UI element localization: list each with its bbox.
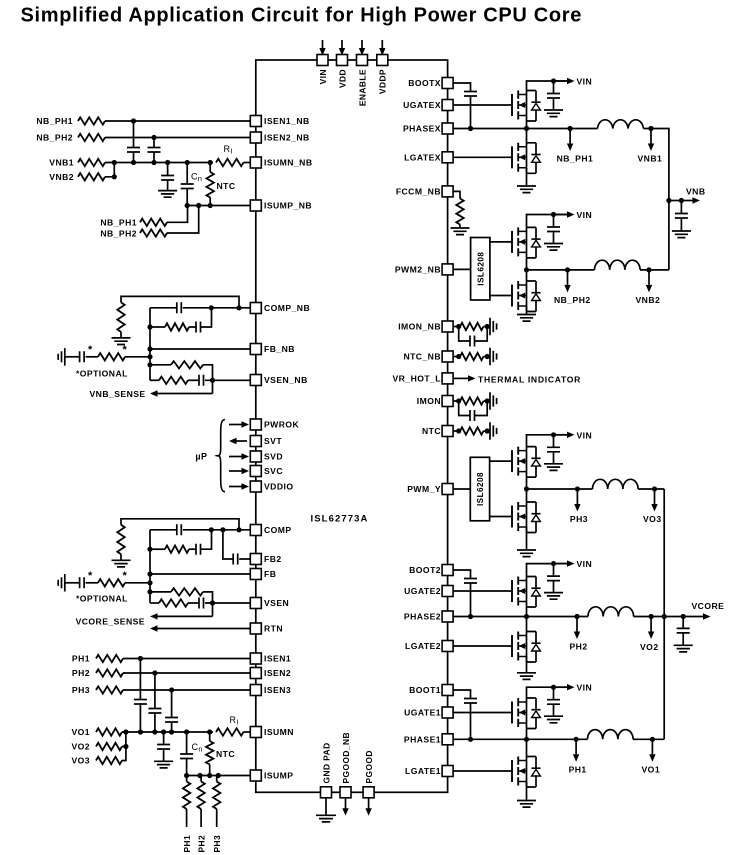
arrow VO3 (651, 489, 657, 512)
svg-text:VNB2: VNB2 (636, 295, 661, 305)
wire VNB2 to bus (105, 163, 114, 177)
svg-text:*: * (123, 570, 128, 582)
pin LGATEX (442, 152, 453, 163)
transistor upper FET phase 2 (512, 577, 541, 608)
arrow PWROK in (229, 421, 249, 427)
resistor VNB1 (78, 159, 105, 166)
pin ISUMN (250, 727, 261, 738)
wire bootstrap (448, 83, 471, 92)
inductor phase X (598, 120, 644, 129)
svg-text:*: * (123, 344, 128, 356)
driver U2 ISL6208 (471, 238, 490, 301)
svg-text:ISEN1: ISEN1 (264, 654, 291, 664)
arrow sense out (150, 613, 213, 619)
wire (188, 602, 199, 604)
wire cap to ISUMN_NB (153, 152, 155, 163)
wire (139, 659, 141, 700)
node NB_PH2 (565, 267, 570, 272)
junction ISUMP bus (184, 773, 189, 778)
pin VSEN (250, 598, 261, 609)
junction (468, 126, 473, 131)
wire (526, 739, 528, 756)
wire NTC to ISUMP_NB (209, 198, 211, 206)
svg-text:FB_NB: FB_NB (264, 344, 295, 354)
wire into pin ENABLE (361, 40, 363, 48)
wire (459, 326, 460, 328)
ground (490, 392, 497, 410)
wire (680, 201, 682, 214)
svg-text:Simplified Application Circuit: Simplified Application Circuit for High … (21, 5, 583, 27)
resistor NB_PH2 lower (140, 229, 167, 236)
junction ISUMN_NB bus (185, 160, 190, 165)
ground (optional) (58, 348, 65, 366)
wire (475, 327, 488, 342)
arrow VIN (554, 78, 575, 84)
svg-text:*: * (88, 344, 93, 356)
svg-text:Cn: Cn (192, 742, 203, 754)
pin FB2 (250, 554, 261, 565)
svg-text:VIN: VIN (577, 683, 593, 693)
wire into pin VDDP (381, 40, 383, 48)
wire UGATE1 (448, 712, 512, 714)
arrow VNB out (681, 197, 700, 203)
wire into pin VIN (322, 40, 324, 48)
wire (669, 200, 682, 202)
ground (674, 645, 693, 652)
pin ISEN3 (250, 685, 261, 696)
wire (553, 564, 555, 577)
ground (517, 673, 536, 680)
junction phase Y (524, 486, 529, 491)
svg-text:NTC: NTC (422, 426, 441, 436)
junction (185, 203, 190, 208)
svg-text:ISL6208: ISL6208 (476, 472, 485, 506)
svg-text:GND PAD: GND PAD (321, 742, 331, 783)
capacitor VCORE output (677, 628, 690, 633)
wire to VSEN pin (205, 602, 256, 604)
svg-text:VO2: VO2 (640, 642, 659, 652)
ground (517, 801, 536, 808)
node VO2 (649, 614, 654, 619)
capacitor feedback (177, 524, 182, 535)
resistor optional (98, 579, 125, 586)
svg-text:ISUMN: ISUMN (264, 727, 294, 737)
wire to FB2 pin (239, 558, 256, 560)
wire (484, 400, 491, 402)
svg-text:VIN: VIN (577, 559, 593, 569)
pin PWM_Y (442, 484, 453, 495)
pin VSEN_NB (250, 375, 261, 386)
wire (150, 602, 159, 604)
transistor lower FET phase 2 (512, 632, 541, 663)
junction (210, 600, 215, 605)
junction ISUMN_NB bus (151, 160, 156, 165)
transistor lower FET phase X (512, 143, 541, 174)
svg-text:VNB1: VNB1 (49, 158, 74, 168)
resistor compensation RC (165, 546, 189, 553)
junction ISUMN bus (184, 729, 189, 734)
resistor optional (98, 353, 125, 360)
wire bootstrap to phase (470, 703, 472, 739)
wire (553, 435, 555, 448)
svg-text:PHASEX: PHASEX (403, 124, 441, 134)
wire sense (212, 380, 214, 393)
wire (553, 581, 555, 593)
svg-text:PH3: PH3 (212, 835, 222, 853)
wire UGATE2 (448, 590, 512, 592)
wire (150, 326, 165, 328)
resistor Ri (216, 159, 244, 166)
pin ISEN2 (250, 668, 261, 679)
wire drain to VIN (527, 215, 570, 228)
capacitor ISEN1_NB filter (127, 148, 140, 153)
pin LGATE1 (442, 766, 453, 777)
svg-text:VIN: VIN (577, 430, 593, 440)
svg-text:UGATEX: UGATEX (403, 100, 441, 110)
wire (553, 98, 555, 110)
junction (196, 203, 201, 208)
junction (485, 354, 490, 359)
ground (490, 348, 497, 365)
wire phase node vertical (526, 477, 528, 502)
junction ISUMP bus (216, 773, 221, 778)
svg-text:FCCM_NB: FCCM_NB (396, 187, 441, 197)
arrow VNB2 (646, 270, 652, 293)
svg-text:VSEN_NB: VSEN_NB (264, 375, 308, 385)
wire drain to VIN (527, 687, 570, 698)
svg-text:ISEN3: ISEN3 (264, 685, 291, 695)
arrow into pin VIN (319, 48, 325, 56)
wire to ISEN (123, 672, 256, 674)
wire (200, 776, 202, 782)
wire PH3 node east (638, 488, 664, 490)
wire (65, 582, 80, 584)
wire to pin (183, 307, 256, 309)
capacitor ISEN1 filter (134, 700, 147, 705)
junction (468, 737, 473, 742)
wire (120, 332, 122, 338)
arrow NB_PH2 (564, 270, 570, 293)
capacitor feedback (177, 302, 182, 313)
svg-text:VCORE_SENSE: VCORE_SENSE (76, 617, 145, 627)
resistor PH1 return (183, 782, 190, 810)
wire to ISUMP_NB (167, 206, 199, 234)
wire FCCM_NB (448, 191, 460, 198)
node PH3 (575, 486, 580, 491)
wire (209, 732, 211, 741)
inductor phase Y (593, 479, 639, 489)
pin NTC (442, 426, 453, 437)
node VNB (666, 198, 671, 203)
junction ISUMN_NB bus (208, 160, 213, 165)
wire (186, 163, 188, 185)
junction (456, 428, 461, 433)
arrow PH1 (573, 739, 579, 762)
pin SVT (250, 436, 261, 447)
brace uP (217, 420, 226, 492)
svg-text:VNB: VNB (686, 187, 706, 197)
wire compensation top (121, 296, 239, 307)
svg-text:SVC: SVC (264, 466, 283, 476)
svg-text:VIN: VIN (577, 77, 593, 87)
arrow into pin ENABLE (359, 48, 365, 56)
arrow PGOOD_NB out (342, 808, 348, 816)
wire (150, 529, 177, 531)
transistor upper FET phase X (512, 91, 541, 122)
wire to ISEN (123, 689, 256, 691)
wire (484, 430, 491, 432)
pin ENABLE (357, 55, 368, 66)
svg-text:LGATE2: LGATE2 (405, 641, 441, 651)
svg-text:RI: RI (230, 715, 239, 727)
node ISEN2_NB filter tap (151, 135, 156, 140)
wire RC up (201, 530, 212, 549)
arrow NB_PH1 (567, 129, 573, 152)
resistor VO2 (96, 743, 122, 750)
resistor IMON (460, 397, 484, 404)
junction (485, 324, 490, 329)
wire (475, 401, 488, 416)
node PH1 (574, 737, 579, 742)
svg-text:VDD: VDD (337, 69, 347, 88)
svg-text:PWROK: PWROK (264, 420, 300, 430)
svg-text:Cn: Cn (191, 172, 202, 184)
svg-text:COMP: COMP (264, 525, 292, 535)
wire feedback bus (149, 308, 151, 381)
svg-text:VIN: VIN (577, 210, 593, 220)
wire to ISUMP_NB (167, 206, 188, 223)
pin COMP (250, 525, 261, 536)
resistor NB_PH1 lower (140, 219, 167, 226)
svg-text:COMP_NB: COMP_NB (264, 303, 310, 313)
pin PWROK (250, 419, 261, 430)
wire drain to VIN (527, 564, 570, 577)
wire to ISEN1_NB (105, 120, 256, 122)
svg-text:VDDP: VDDP (378, 69, 388, 94)
junction (209, 527, 214, 532)
svg-text:IMON_NB: IMON_NB (398, 322, 441, 332)
wire to pin (183, 529, 256, 531)
arrow VIN (554, 560, 575, 566)
junction FB2 tap (220, 527, 225, 532)
ground (154, 761, 173, 768)
junction ISUMN bus (161, 729, 166, 734)
wire VO3 up (122, 747, 126, 761)
wire (526, 729, 528, 740)
junction (208, 203, 213, 208)
wire PGOOD (368, 798, 370, 809)
pin FB (250, 569, 261, 580)
pin IMON (442, 396, 453, 407)
wire (680, 218, 682, 231)
junction ISUMN_NB bus (112, 160, 117, 165)
resistor divider upper (171, 361, 203, 368)
svg-text:FB: FB (264, 569, 276, 579)
junction VIN (551, 432, 556, 437)
arrow SVD in (229, 453, 249, 459)
arrow VIN (554, 684, 575, 690)
wire (120, 554, 122, 560)
wire source to ground (526, 782, 528, 801)
wire (186, 776, 188, 782)
wire Cn to ISUMP_NB (186, 189, 188, 206)
svg-text:PH1: PH1 (72, 654, 90, 664)
pin PWM2_NB (442, 264, 453, 275)
transistor upper FET phase 1 (512, 698, 541, 729)
wire drain to VIN (527, 81, 570, 91)
wire bootstrap to phase (470, 583, 472, 617)
wire (186, 809, 188, 827)
junction (147, 580, 152, 585)
svg-text:LGATEX: LGATEX (404, 153, 441, 163)
arrow PGOOD out (365, 808, 371, 816)
wire (171, 722, 173, 732)
junction (147, 354, 152, 359)
capacitor compensation RC (196, 544, 201, 555)
resistor NTC network (460, 427, 484, 434)
resistor NTC (NB) (207, 172, 214, 198)
wire source to ground (526, 306, 528, 315)
capacitor filter (470, 336, 475, 347)
capacitor FB2 (233, 554, 238, 565)
pin VIN (317, 55, 328, 66)
svg-text:LGATE1: LGATE1 (405, 766, 441, 776)
svg-text:VIN: VIN (318, 69, 328, 84)
junction (147, 547, 152, 552)
wire (203, 592, 213, 603)
junction phase X (524, 126, 529, 131)
pin SVC (250, 466, 261, 477)
resistor divider upper (171, 588, 203, 595)
capacitor VIN decoupling (547, 700, 560, 705)
wire PWM2_NB to driver (448, 268, 471, 270)
svg-text:µP: µP (195, 452, 207, 462)
node VNB1 (648, 126, 653, 131)
wire (459, 327, 470, 342)
wire RC up (201, 308, 212, 327)
ground (490, 318, 497, 335)
resistor PH3 sense (96, 686, 123, 693)
svg-text:ISEN1_NB: ISEN1_NB (264, 116, 310, 126)
wire (459, 430, 460, 432)
ground (517, 315, 536, 322)
wire drain to VIN (527, 435, 570, 447)
wire to ISUMN (244, 731, 256, 733)
pin COMP_NB (250, 303, 261, 314)
junction (147, 346, 152, 351)
junction ISUMN bus (123, 729, 128, 734)
wire (150, 591, 171, 593)
capacitor filter (470, 410, 475, 421)
wire VNB rail (666, 129, 669, 270)
wire NB phase 2 node (527, 269, 595, 271)
svg-text:NB_PH1: NB_PH1 (100, 218, 137, 228)
resistor divider lower (159, 377, 188, 384)
svg-text:UGATE2: UGATE2 (404, 586, 441, 596)
resistor VNB2 (78, 173, 105, 180)
pin ISUMN_NB (250, 157, 261, 168)
svg-text:PH1: PH1 (182, 835, 192, 853)
junction ISUMN bus (138, 729, 143, 734)
svg-text:VDDIO: VDDIO (264, 482, 293, 492)
node ISEN1_NB filter tap (131, 118, 136, 123)
wire source to ground (526, 168, 528, 186)
ground (158, 191, 177, 198)
svg-text:PWM_Y: PWM_Y (407, 484, 441, 494)
wire LGATEX (448, 156, 512, 158)
wire (448, 430, 459, 432)
inductor phase 1 (588, 730, 634, 740)
pin ISUMP (250, 770, 261, 781)
pin FB_NB (250, 344, 261, 355)
wire (150, 364, 171, 366)
pin PHASE2 (442, 611, 453, 622)
pin RTN (250, 623, 261, 634)
wire (150, 379, 159, 381)
resistor compensation (117, 302, 124, 332)
resistor PH2 return (197, 782, 204, 810)
svg-text:*OPTIONAL: *OPTIONAL (76, 369, 128, 379)
capacitor to ground (157, 745, 170, 750)
ground (544, 464, 563, 471)
svg-text:PHASE1: PHASE1 (404, 735, 441, 745)
wire cap drop (153, 138, 155, 148)
wire PWM_Y to driver (448, 488, 471, 490)
junction filter tap (169, 687, 174, 692)
pin BOOT2 (442, 565, 453, 576)
pin LGATE2 (442, 641, 453, 652)
wire VO2 up (122, 732, 126, 747)
ground (451, 228, 470, 235)
svg-text:ISEN2_NB: ISEN2_NB (264, 133, 310, 143)
pin VDDP (377, 55, 388, 66)
wire (163, 732, 165, 745)
wire LGATE2 (448, 645, 512, 647)
wire (186, 759, 188, 776)
capacitor VIN decoupling (547, 227, 560, 232)
junction (679, 198, 684, 203)
wire (125, 582, 150, 584)
capacitor ISEN2 filter (148, 709, 161, 714)
capacitor bootstrap (464, 579, 477, 584)
wire to FB pin (150, 348, 256, 350)
junction filter tap (152, 670, 157, 675)
svg-text:PWM2_NB: PWM2_NB (395, 265, 441, 275)
wire source to ground (526, 657, 528, 673)
resistor PH2 sense (96, 669, 123, 676)
arrow VO1 (649, 739, 655, 762)
transistor lower FET NB phase 2 (512, 281, 541, 312)
wire PH3 node (527, 488, 593, 490)
capacitor divider (199, 375, 204, 386)
resistor NTC_NB network (460, 353, 484, 360)
wire (682, 617, 684, 629)
resistor IMON_NB (460, 323, 484, 330)
junction phase 1 (524, 737, 529, 742)
wire bootstrap (448, 570, 471, 579)
wire (171, 690, 173, 718)
arrow VIN (554, 211, 575, 217)
resistor compensation (117, 525, 124, 555)
junction (147, 571, 152, 576)
wire PHASEX node (448, 128, 598, 130)
pin FCCM_NB (442, 186, 453, 197)
wire PHASE2 node east (634, 616, 665, 618)
svg-text:PH2: PH2 (72, 668, 90, 678)
wire (163, 749, 165, 761)
svg-text:NB_PH2: NB_PH2 (100, 229, 137, 239)
wire (86, 356, 98, 358)
